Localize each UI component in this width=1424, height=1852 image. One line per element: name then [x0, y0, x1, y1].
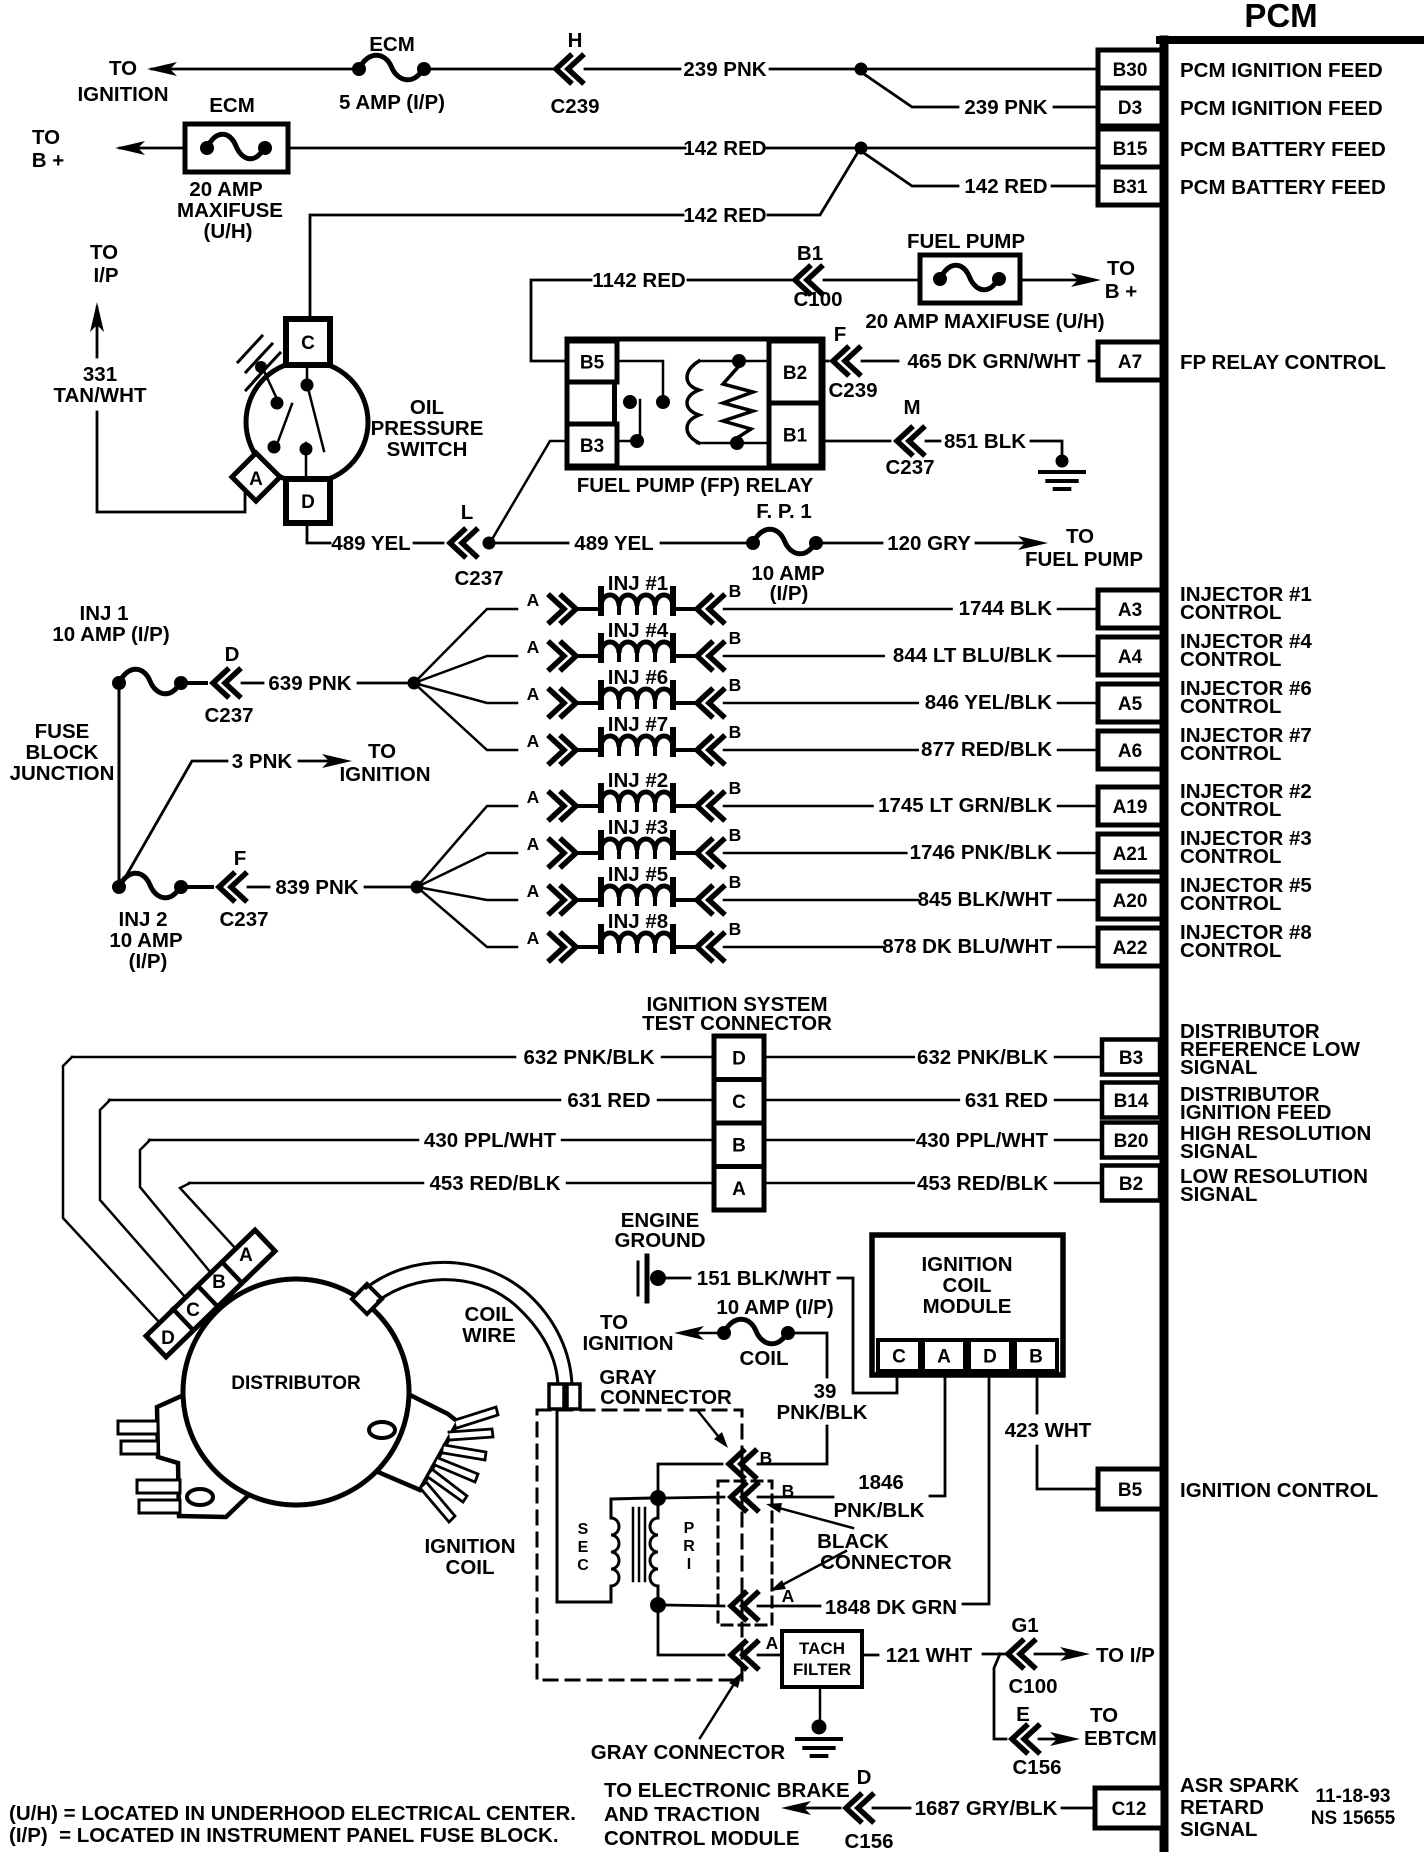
svg-text:B20: B20: [1114, 1131, 1149, 1152]
svg-text:INJ 2: INJ 2: [119, 908, 168, 931]
relay pin B1: [769, 403, 821, 466]
wire 1744 BLK: [724, 608, 952, 611]
svg-text:(U/H): (U/H): [204, 220, 253, 243]
svg-text:B1: B1: [797, 242, 823, 265]
svg-text:A: A: [527, 637, 540, 657]
svg-text:D: D: [225, 643, 240, 666]
ignition coil module pin A: [923, 1340, 965, 1371]
relay pin B5: [567, 341, 617, 382]
svg-text:IGNITION: IGNITION: [582, 1332, 673, 1355]
pin D3: [1098, 88, 1162, 126]
svg-text:B31: B31: [1113, 177, 1148, 198]
svg-text:A: A: [527, 834, 540, 854]
svg-text:R: R: [683, 1538, 695, 1555]
svg-text:IGNITION: IGNITION: [77, 83, 168, 106]
svg-text:(I/P) = LOCATED IN INSTRUMENT: (I/P) = LOCATED IN INSTRUMENT PANEL FUSE…: [9, 1824, 559, 1847]
wire 844 LT BLU/BLK: [724, 655, 884, 658]
wire 878 DK BLU/WHT: [724, 946, 884, 949]
connector C156 pin D: [846, 1795, 872, 1821]
svg-text:B: B: [729, 628, 742, 648]
fuse ECM 5A: [352, 62, 366, 76]
svg-text:COIL: COIL: [740, 1347, 789, 1370]
svg-text:B5: B5: [1118, 1480, 1143, 1501]
pin A3: [1098, 590, 1162, 628]
svg-text:ASR SPARK: ASR SPARK: [1180, 1774, 1299, 1797]
wire 3 PNK to ignition: [122, 761, 227, 883]
svg-text:PCM BATTERY FEED: PCM BATTERY FEED: [1180, 176, 1386, 199]
fuse ECM 20A MAXIFUSE: [185, 124, 288, 172]
svg-text:C: C: [577, 1557, 589, 1574]
svg-text:639 PNK: 639 PNK: [268, 672, 351, 695]
svg-text:ECM: ECM: [369, 33, 415, 56]
svg-text:A3: A3: [1118, 600, 1142, 621]
svg-text:B2: B2: [1119, 1174, 1143, 1195]
svg-text:TO ELECTRONIC BRAKE: TO ELECTRONIC BRAKE: [604, 1779, 850, 1802]
svg-text:C156: C156: [844, 1830, 893, 1852]
svg-text:NS 15655: NS 15655: [1311, 1808, 1396, 1829]
svg-text:489 YEL: 489 YEL: [574, 532, 653, 555]
svg-text:GROUND: GROUND: [614, 1229, 705, 1252]
svg-text:A: A: [766, 1633, 779, 1653]
svg-text:5 AMP (I/P): 5 AMP (I/P): [339, 91, 445, 114]
svg-text:C237: C237: [219, 908, 268, 931]
svg-text:839 PNK: 839 PNK: [275, 876, 358, 899]
svg-text:(U/H) = LOCATED IN UNDERHOOD E: (U/H) = LOCATED IN UNDERHOOD ELECTRICAL …: [9, 1802, 576, 1825]
svg-text:C: C: [892, 1346, 906, 1367]
svg-text:142 RED: 142 RED: [683, 137, 766, 160]
node coil top junction: [650, 1490, 666, 1506]
svg-text:IGNITION: IGNITION: [339, 763, 430, 786]
svg-text:A: A: [249, 469, 263, 490]
wire 121 WHT: [862, 1654, 878, 1657]
svg-text:RETARD: RETARD: [1180, 1796, 1264, 1819]
wire 632 PNK/BLK to distributor D: [63, 1057, 160, 1323]
svg-text:A: A: [937, 1346, 951, 1367]
wire 151 BLK/WHT: [664, 1277, 690, 1280]
svg-text:CONTROL: CONTROL: [1180, 845, 1281, 868]
hatch marks: [238, 336, 262, 362]
relay pin B3: [567, 424, 617, 466]
svg-text:453 RED/BLK: 453 RED/BLK: [917, 1172, 1048, 1195]
svg-text:H: H: [568, 29, 583, 52]
svg-text:B: B: [1029, 1346, 1043, 1367]
svg-text:845 BLK/WHT: 845 BLK/WHT: [918, 888, 1053, 911]
svg-text:F: F: [234, 847, 247, 870]
svg-text:EBTCM: EBTCM: [1084, 1727, 1157, 1750]
connector B side A4: [697, 643, 723, 669]
svg-text:B5: B5: [580, 352, 605, 373]
svg-text:B: B: [212, 1272, 226, 1293]
connector C237 pin M: [897, 428, 923, 454]
svg-text:CONNECTOR: CONNECTOR: [600, 1386, 732, 1409]
connector B side A5: [697, 690, 723, 716]
svg-text:SIGNAL: SIGNAL: [1180, 1056, 1257, 1079]
svg-text:239 PNK: 239 PNK: [964, 96, 1047, 119]
svg-text:INJ #4: INJ #4: [608, 619, 669, 642]
svg-text:465 DK GRN/WHT: 465 DK GRN/WHT: [907, 350, 1081, 373]
wire branch to D3: [861, 72, 958, 107]
svg-text:FUEL PUMP (FP) RELAY: FUEL PUMP (FP) RELAY: [577, 474, 814, 497]
svg-text:B: B: [729, 872, 742, 892]
pin C12: [1095, 1788, 1163, 1828]
coil wire terminal: [549, 1384, 564, 1409]
svg-text:COIL: COIL: [943, 1274, 992, 1297]
svg-text:10 AMP (I/P): 10 AMP (I/P): [52, 623, 169, 646]
terminal A diamond: [232, 453, 280, 501]
svg-text:FUEL PUMP: FUEL PUMP: [907, 230, 1025, 253]
svg-text:B: B: [729, 581, 742, 601]
svg-text:MODULE: MODULE: [923, 1295, 1012, 1318]
svg-text:D: D: [857, 1766, 872, 1789]
connector C237 pin L: [450, 530, 476, 556]
connector C100 pin G1: [1008, 1641, 1034, 1667]
svg-text:A22: A22: [1113, 938, 1148, 959]
wire 631 RED left: [109, 1099, 560, 1102]
svg-text:CONTROL: CONTROL: [1180, 798, 1281, 821]
ignition coil module pin D: [969, 1340, 1011, 1371]
wire 239 PNK: [585, 68, 680, 71]
svg-text:IGNITION: IGNITION: [424, 1535, 515, 1558]
svg-text:WIRE: WIRE: [462, 1324, 516, 1347]
svg-text:FUSE: FUSE: [35, 720, 90, 743]
svg-text:C237: C237: [454, 567, 503, 590]
svg-text:B: B: [760, 1448, 773, 1468]
relay pin B2: [769, 341, 821, 403]
svg-text:C: C: [186, 1300, 200, 1321]
svg-text:PCM BATTERY FEED: PCM BATTERY FEED: [1180, 138, 1386, 161]
svg-text:3 PNK: 3 PNK: [232, 750, 293, 773]
pin B31: [1098, 167, 1162, 205]
connector B side A3: [697, 596, 723, 622]
svg-text:IGNITION CONTROL: IGNITION CONTROL: [1180, 1479, 1378, 1502]
svg-text:11-18-93: 11-18-93: [1315, 1786, 1390, 1807]
svg-text:E: E: [578, 1539, 589, 1556]
svg-text:39: 39: [814, 1380, 837, 1403]
wire fuse to C239 connector: [431, 68, 556, 71]
black connector dashed boundary: [718, 1481, 772, 1625]
node coil bottom junction: [650, 1597, 666, 1613]
svg-text:A: A: [527, 881, 540, 901]
svg-text:PCM: PCM: [1244, 0, 1317, 34]
svg-text:A: A: [732, 1179, 746, 1200]
connector B side A20: [697, 887, 723, 913]
distributor cap terminal strip: [146, 1230, 275, 1357]
distributor left connector body: [157, 1394, 262, 1517]
pin A20: [1098, 881, 1162, 919]
svg-text:A20: A20: [1113, 891, 1148, 912]
svg-text:SIGNAL: SIGNAL: [1180, 1140, 1257, 1163]
switch contacts: [255, 361, 267, 373]
wire pin D 1848 DK GRN: [963, 1375, 989, 1604]
svg-text:FP RELAY CONTROL: FP RELAY CONTROL: [1180, 351, 1386, 374]
svg-text:B: B: [729, 825, 742, 845]
svg-text:632 PNK/BLK: 632 PNK/BLK: [523, 1046, 654, 1069]
svg-text:10 AMP: 10 AMP: [109, 929, 182, 952]
svg-text:(I/P): (I/P): [129, 950, 168, 973]
svg-text:A: A: [527, 731, 540, 751]
wire 430 PPL/WHT right: [764, 1139, 914, 1142]
svg-text:D: D: [301, 492, 315, 513]
svg-text:PNK/BLK: PNK/BLK: [776, 1401, 867, 1424]
svg-text:631 RED: 631 RED: [965, 1089, 1048, 1112]
svg-text:632 PNK/BLK: 632 PNK/BLK: [917, 1046, 1048, 1069]
svg-text:C: C: [732, 1092, 746, 1113]
connector B side A22: [697, 934, 723, 960]
svg-text:TO: TO: [32, 126, 60, 149]
engine ground symbol: [637, 1262, 640, 1295]
connector gray B: [729, 1451, 755, 1477]
svg-text:851 BLK: 851 BLK: [944, 430, 1026, 453]
test connector cell B: [714, 1123, 764, 1167]
wire 1745 LT GRN/BLK: [724, 805, 873, 808]
svg-text:SIGNAL: SIGNAL: [1180, 1818, 1257, 1841]
svg-text:I: I: [687, 1556, 691, 1573]
svg-text:TO: TO: [1066, 525, 1094, 548]
svg-text:TAN/WHT: TAN/WHT: [54, 384, 147, 407]
svg-text:121 WHT: 121 WHT: [886, 1644, 973, 1667]
svg-text:SWITCH: SWITCH: [387, 438, 468, 461]
svg-text:1848 DK GRN: 1848 DK GRN: [825, 1596, 957, 1619]
wire 465 DK GRN/WHT: [821, 360, 828, 363]
svg-text:C239: C239: [550, 95, 599, 118]
node 239 PNK junction: [855, 63, 868, 76]
svg-text:846 YEL/BLK: 846 YEL/BLK: [925, 691, 1052, 714]
svg-text:1746 PNK/BLK: 1746 PNK/BLK: [910, 841, 1053, 864]
ground 851: [1031, 441, 1062, 466]
svg-text:489 YEL: 489 YEL: [331, 532, 410, 555]
svg-text:B: B: [729, 722, 742, 742]
svg-text:423 WHT: 423 WHT: [1005, 1419, 1092, 1442]
pin B14: [1102, 1083, 1160, 1118]
svg-text:INJ #1: INJ #1: [608, 572, 668, 595]
svg-text:COIL: COIL: [446, 1556, 495, 1579]
svg-text:INJ 1: INJ 1: [80, 602, 129, 625]
svg-text:B3: B3: [580, 436, 604, 457]
svg-text:MAXIFUSE: MAXIFUSE: [177, 199, 283, 222]
wire B3 to 489 junction: [491, 441, 567, 541]
wire 851 BLK: [821, 440, 890, 443]
svg-text:BLACK: BLACK: [817, 1530, 889, 1553]
pin A21: [1098, 834, 1162, 872]
wire fan 639 PNK to injectors 1,4,6,7: [414, 609, 517, 683]
svg-text:C100: C100: [1008, 1675, 1057, 1698]
svg-text:I/P: I/P: [93, 264, 118, 287]
pin B2: [1102, 1166, 1160, 1201]
svg-text:M: M: [903, 396, 920, 419]
terminal C: [286, 319, 330, 365]
coil wire arcs: [366, 1262, 572, 1386]
svg-text:A19: A19: [1113, 797, 1148, 818]
wire 1142 RED: [531, 280, 591, 361]
svg-text:B: B: [732, 1136, 746, 1157]
svg-text:142 RED: 142 RED: [683, 204, 766, 227]
connector B side A6: [697, 737, 723, 763]
wire fan 839 PNK to injectors 2,3,5,8: [417, 806, 517, 887]
connector C100 pin B1: [795, 267, 821, 293]
svg-text:A: A: [527, 787, 540, 807]
svg-text:B: B: [729, 675, 742, 695]
svg-text:TO: TO: [109, 57, 137, 80]
wire 489 YEL from D: [307, 523, 330, 543]
distributor body circle: [183, 1279, 409, 1505]
svg-text:JUNCTION: JUNCTION: [10, 762, 115, 785]
svg-text:D3: D3: [1118, 98, 1142, 119]
wire: TO IGNITION arrow row1: [152, 68, 352, 71]
svg-text:CONTROL: CONTROL: [1180, 892, 1281, 915]
svg-text:B3: B3: [1119, 1048, 1143, 1069]
test connector cell A: [714, 1167, 764, 1211]
wire 120 GRY: [823, 542, 882, 545]
svg-text:TO: TO: [600, 1311, 628, 1334]
pin B30: [1098, 50, 1162, 88]
svg-text:A: A: [527, 684, 540, 704]
svg-text:A: A: [239, 1245, 253, 1266]
wire 845 BLK/WHT: [724, 899, 918, 902]
ignition coil module box: [872, 1235, 1063, 1375]
distributor right connector body: [378, 1392, 458, 1490]
svg-text:1745 LT GRN/BLK: 1745 LT GRN/BLK: [878, 794, 1052, 817]
connector C237 pin D (injector feed): [188, 681, 206, 685]
relay FP outer box: [567, 339, 823, 468]
svg-text:D: D: [983, 1346, 997, 1367]
relay switch: [617, 361, 663, 395]
svg-text:C156: C156: [1012, 1756, 1061, 1779]
distributor right connector prongs: [455, 1407, 498, 1428]
svg-text:A5: A5: [1118, 694, 1143, 715]
svg-text:CONTROL: CONTROL: [1180, 648, 1281, 671]
svg-text:B1: B1: [783, 425, 808, 446]
svg-text:430 PPL/WHT: 430 PPL/WHT: [916, 1129, 1049, 1152]
svg-text:C239: C239: [828, 379, 877, 402]
svg-text:CONTROL: CONTROL: [1180, 695, 1281, 718]
svg-text:878 DK BLU/WHT: 878 DK BLU/WHT: [882, 935, 1052, 958]
svg-text:1744 BLK: 1744 BLK: [959, 597, 1053, 620]
svg-text:IGNITION: IGNITION: [921, 1253, 1012, 1276]
svg-text:151 BLK/WHT: 151 BLK/WHT: [697, 1267, 832, 1290]
wire 453 RED/BLK left: [189, 1182, 423, 1185]
wire 453 RED/BLK to distributor A: [180, 1183, 236, 1249]
svg-text:SIGNAL: SIGNAL: [1180, 1183, 1257, 1206]
wire 142 RED to oil pressure switch: [310, 215, 683, 319]
svg-text:844 LT BLU/BLK: 844 LT BLU/BLK: [893, 644, 1052, 667]
svg-text:331: 331: [83, 363, 117, 386]
svg-text:(I/P): (I/P): [770, 582, 809, 605]
connector B side A21: [697, 840, 723, 866]
svg-text:DISTRIBUTOR: DISTRIBUTOR: [231, 1373, 361, 1394]
svg-text:A: A: [527, 590, 540, 610]
svg-text:INJ #5: INJ #5: [608, 863, 668, 886]
connector C156 pin E: [1012, 1726, 1038, 1752]
tach filter box: [758, 1654, 782, 1657]
gray connector dashed boundary: [537, 1410, 742, 1680]
svg-text:TO: TO: [368, 740, 396, 763]
wire 331 TAN/WHT to I/P: [97, 412, 245, 512]
distributor coil tower diamond: [352, 1284, 382, 1314]
wire sec to coil tower: [557, 1409, 611, 1602]
svg-text:120 GRY: 120 GRY: [887, 532, 971, 555]
fuse F.P. 1: [746, 536, 760, 550]
connector black A: [731, 1593, 757, 1619]
wire 631 RED right: [764, 1099, 959, 1102]
svg-text:453 RED/BLK: 453 RED/BLK: [429, 1172, 560, 1195]
svg-text:CONTROL MODULE: CONTROL MODULE: [604, 1827, 800, 1850]
svg-text:L: L: [461, 501, 474, 524]
svg-text:IGNITION FEED: IGNITION FEED: [1180, 1101, 1331, 1124]
svg-text:BLOCK: BLOCK: [26, 741, 99, 764]
svg-text:F: F: [834, 323, 847, 346]
svg-text:FUEL PUMP: FUEL PUMP: [1025, 548, 1143, 571]
svg-text:C100: C100: [793, 288, 842, 311]
svg-text:1142 RED: 1142 RED: [592, 269, 685, 292]
wire branch to B31: [861, 151, 958, 186]
svg-text:239 PNK: 239 PNK: [683, 58, 766, 81]
svg-text:1687 GRY/BLK: 1687 GRY/BLK: [915, 1797, 1058, 1820]
pin A5: [1098, 684, 1162, 722]
connector gray A (tach): [731, 1642, 757, 1668]
pin A6: [1098, 731, 1162, 769]
svg-text:PCM IGNITION FEED: PCM IGNITION FEED: [1180, 59, 1383, 82]
svg-text:10 AMP (I/P): 10 AMP (I/P): [716, 1296, 833, 1319]
svg-text:B30: B30: [1113, 60, 1148, 81]
svg-text:OIL: OIL: [410, 396, 444, 419]
connector C239 pin F: [833, 348, 859, 374]
node 639 PNK fan junction: [408, 677, 421, 690]
wire 430 PPL/WHT to distributor B: [140, 1140, 211, 1273]
svg-text:ECM: ECM: [209, 94, 255, 117]
svg-text:B +: B +: [32, 149, 65, 172]
svg-text:FILTER: FILTER: [793, 1660, 851, 1679]
node 489 YEL junction: [483, 537, 496, 550]
pin A4: [1098, 637, 1162, 675]
ignition coil core: [633, 1508, 645, 1581]
svg-text:TO: TO: [1090, 1704, 1118, 1727]
svg-text:INJ #7: INJ #7: [608, 713, 668, 736]
svg-text:INJ #6: INJ #6: [608, 666, 668, 689]
svg-text:B: B: [782, 1481, 795, 1501]
ignition coil module pin B: [1015, 1340, 1057, 1371]
svg-text:TO: TO: [1107, 257, 1135, 280]
connector C239 pin H: [556, 56, 582, 82]
svg-text:E: E: [1016, 1703, 1030, 1726]
svg-text:CONTROL: CONTROL: [1180, 742, 1281, 765]
relay coil: [699, 360, 769, 363]
svg-text:20 AMP: 20 AMP: [189, 178, 262, 201]
pin B15: [1098, 129, 1162, 167]
wire 142 RED row: [288, 147, 685, 150]
svg-text:C237: C237: [885, 456, 934, 479]
ignition coil module pin C: [878, 1340, 920, 1371]
pin A7: [1098, 342, 1162, 380]
wire to EBTCM: [994, 1654, 1006, 1739]
wire 631 RED to distributor C: [100, 1100, 186, 1298]
svg-text:B: B: [729, 919, 742, 939]
node 142 RED junction: [855, 142, 868, 155]
svg-text:430 PPL/WHT: 430 PPL/WHT: [424, 1129, 557, 1152]
svg-text:TO: TO: [90, 241, 118, 264]
connector B side A19: [697, 793, 723, 819]
wire TO B+ arrow: [1020, 279, 1090, 282]
svg-text:P: P: [684, 1520, 695, 1537]
svg-text:A7: A7: [1118, 352, 1142, 373]
PCM spine: [1160, 40, 1169, 1852]
terminal D: [286, 479, 330, 523]
svg-text:PCM IGNITION FEED: PCM IGNITION FEED: [1180, 97, 1383, 120]
svg-text:877 RED/BLK: 877 RED/BLK: [921, 738, 1052, 761]
svg-text:B15: B15: [1113, 139, 1148, 160]
wire 846 YEL/BLK: [724, 702, 918, 705]
wire 632 PNK/BLK left: [72, 1056, 515, 1059]
svg-text:INJ #2: INJ #2: [608, 769, 668, 792]
